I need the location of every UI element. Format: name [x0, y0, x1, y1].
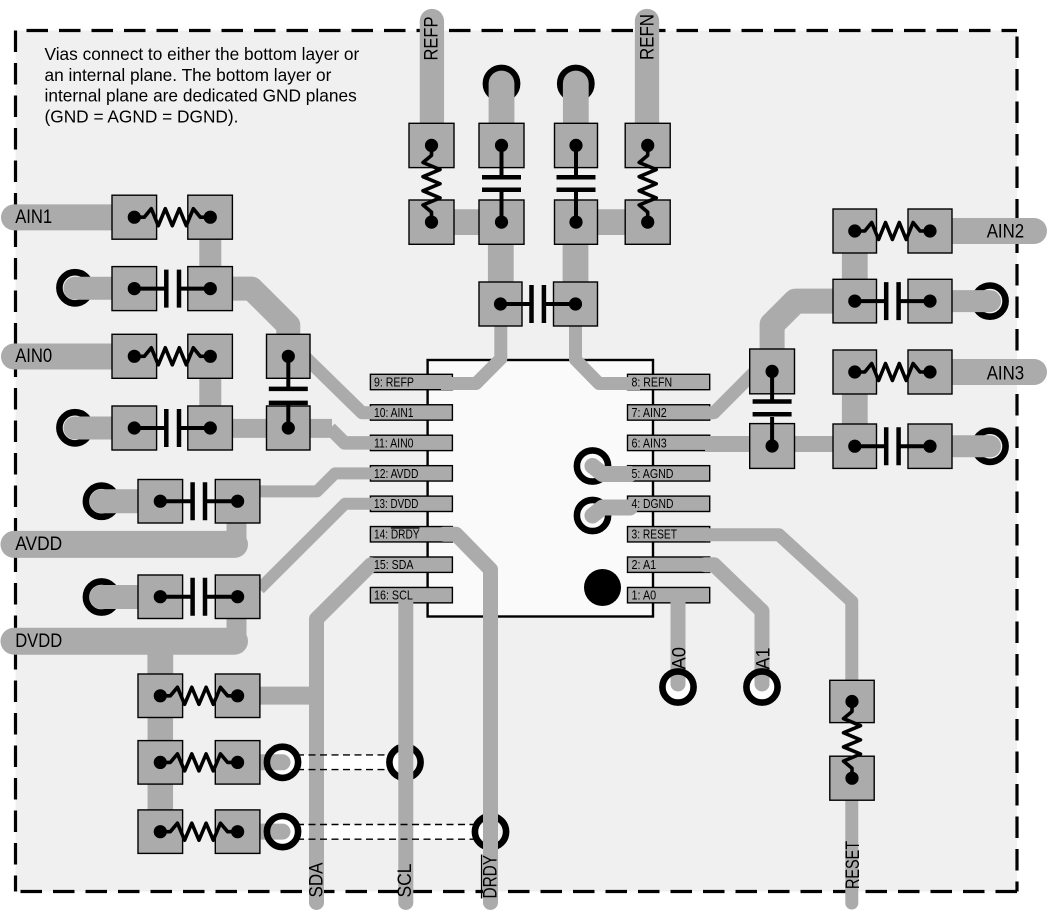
- capacitor C_AIN0: [112, 406, 232, 450]
- wire C2 to diff cap to pin11: [210, 419, 332, 438]
- pin 10 AIN1: [370, 405, 452, 420]
- wire via to REF colC: [563, 84, 589, 147]
- via AGND: [577, 450, 608, 481]
- pin 3 RESET: [628, 527, 710, 542]
- via A0: [662, 671, 693, 702]
- svg-text:RESET: RESET: [843, 841, 864, 889]
- wire pullup3 to via: [258, 824, 283, 840]
- via DVDD cap GND: [86, 581, 117, 612]
- resistor R_AIN0: [112, 334, 232, 378]
- pin 7 AIN2: [628, 405, 710, 420]
- pin 8 REFN: [628, 374, 710, 389]
- wire AIN3 input: [930, 359, 1034, 385]
- resistor R_AIN3: [833, 350, 952, 394]
- jumper channel DRDY (white): [283, 825, 491, 840]
- capacitor C_AVDD: [138, 480, 260, 524]
- wire diff cap to pin10: [302, 354, 372, 413]
- svg-text:AIN0: AIN0: [15, 346, 52, 367]
- board outline dashed right: [1015, 31, 1018, 892]
- wire via to C1: [75, 277, 134, 300]
- svg-text:14: DRDY: 14: DRDY: [374, 528, 420, 542]
- wire AVDD rise to cap: [227, 505, 247, 544]
- wire pin1 to A0 via: [671, 600, 686, 684]
- svg-text:15: SDA: 15: SDA: [374, 558, 414, 572]
- svg-text:5: AGND: 5: AGND: [632, 467, 674, 481]
- svg-text:10: AIN1: 10: AIN1: [374, 406, 414, 420]
- wire AIN0 input: [14, 344, 135, 370]
- wire DVDD rise to cap: [227, 600, 247, 641]
- board outline dashed left: [14, 31, 17, 892]
- wire colC to REF cap: [563, 223, 589, 305]
- pin 1 A0: [628, 587, 710, 602]
- svg-text:8: REFN: 8: REFN: [632, 375, 673, 389]
- pin 14 DRDY overline: [391, 527, 420, 529]
- svg-text:AIN2: AIN2: [987, 222, 1024, 243]
- svg-text:SCL: SCL: [395, 864, 416, 898]
- wire pullup1 to SDA: [258, 687, 324, 705]
- resistor R_pullup2: [138, 741, 260, 785]
- svg-text:A1: A1: [754, 648, 775, 670]
- via AIN2 cap GND: [974, 286, 1005, 317]
- svg-text:SDA: SDA: [307, 862, 328, 897]
- resistor R_AIN2: [833, 209, 952, 253]
- svg-text:12: AVDD: 12: AVDD: [374, 467, 418, 481]
- wire AGND via to pin5: [593, 466, 631, 474]
- svg-text:13: DVDD: 13: DVDD: [374, 497, 418, 511]
- svg-text:2: A1: 2: A1: [632, 558, 657, 572]
- wire AIN2 R to cap: [842, 253, 868, 302]
- wire AIN2 cap to via: [930, 290, 990, 312]
- via AIN0 cap GND: [59, 412, 90, 443]
- via REF cap GND right: [560, 68, 591, 99]
- via jumper SCL right: [389, 747, 420, 778]
- board outline dashed bottom: [16, 890, 1018, 893]
- svg-text:A0: A0: [670, 647, 691, 670]
- wire DVDD to pullups: [147, 640, 173, 675]
- capacitor C_REFP: [479, 123, 524, 244]
- wire colA-colB link: [430, 209, 503, 235]
- pin 15 SDA: [370, 557, 452, 572]
- pin 9 REFP: [370, 374, 452, 389]
- capacitor C_REFN: [555, 123, 598, 244]
- svg-text:AIN3: AIN3: [987, 363, 1024, 384]
- svg-text:internal plane are dedicated G: internal plane are dedicated GND planes: [45, 86, 358, 106]
- wire pin15 to SDA: [317, 565, 372, 903]
- via jumper DRDY left: [267, 816, 298, 847]
- capacitor C_AIN2: [833, 279, 952, 323]
- capacitor C_AIN3: [833, 424, 952, 468]
- note text block: [45, 44, 360, 126]
- via REF cap GND left: [486, 68, 517, 99]
- wire RESET R to edge: [845, 798, 858, 903]
- capacitor C_REF (differential): [479, 282, 598, 326]
- wire AIN2 cap to diff cap: [772, 301, 853, 372]
- svg-text:AIN1: AIN1: [15, 207, 52, 228]
- pin 12 AVDD: [370, 466, 452, 481]
- svg-text:7: AIN2: 7: AIN2: [632, 406, 667, 420]
- resistor R_pullup1: [138, 674, 260, 718]
- resistor R_AIN1: [112, 195, 232, 239]
- svg-text:(GND = AGND = DGND).: (GND = AGND = DGND).: [45, 106, 239, 126]
- svg-text:1: A0: 1: A0: [632, 589, 657, 603]
- wire REF cap to pin8: [576, 302, 641, 384]
- wire pin3 to RESET R: [706, 535, 852, 684]
- wire pin7 to diff cap: [706, 368, 759, 413]
- wire AVDD input: [14, 531, 235, 558]
- wire DGND via to pin4: [593, 508, 631, 516]
- wire colB to REF cap: [488, 223, 514, 305]
- capacitor C_AIN1: [112, 267, 232, 311]
- wire pullup2 to via: [258, 754, 283, 770]
- pin 16 SCL: [370, 587, 452, 602]
- via AVDD cap GND: [86, 486, 117, 517]
- capacitor C_diff_right: [750, 349, 795, 468]
- wire pullup chain 2-3: [148, 783, 174, 811]
- svg-text:DRDY: DRDY: [481, 855, 502, 899]
- wire via to DVDD cap: [102, 585, 162, 609]
- resistor R_RESET: [830, 680, 874, 800]
- svg-text:16: SCL: 16: SCL: [374, 589, 413, 603]
- svg-text:REFP: REFP: [422, 17, 443, 61]
- pin 11 AIN0: [370, 435, 452, 450]
- wire AIN3 cap to via: [930, 435, 990, 457]
- capacitor C_diff_left: [267, 334, 311, 450]
- via jumper DRDY right: [475, 816, 506, 847]
- wire via to C2: [75, 417, 134, 440]
- wire pin6 to AIN3 cap: [705, 436, 855, 452]
- wire pin2 to A1 via: [705, 565, 762, 684]
- jumper dashes DRDY: [297, 825, 476, 840]
- capacitor C_DVDD: [138, 575, 260, 619]
- resistor R_REFP: [409, 123, 454, 244]
- wire R1-C1 link: [199, 218, 221, 288]
- svg-text:an internal plane. The bottom: an internal plane. The bottom layer or: [45, 65, 332, 85]
- wire AIN2 input: [930, 218, 1034, 244]
- wire pullup chain 1-2: [148, 717, 174, 743]
- svg-text:AVDD: AVDD: [15, 534, 62, 555]
- wire pin14 to DRDY: [444, 534, 491, 902]
- wire AIN1 input: [14, 204, 135, 230]
- via jumper SDA left: [267, 747, 298, 778]
- via AIN1 cap GND: [59, 272, 90, 303]
- wire colC-colD link: [574, 209, 649, 235]
- resistor R_pullup3: [138, 810, 260, 854]
- jumper dashes SDA-SCL: [297, 755, 391, 770]
- pin 6 AIN3: [628, 435, 710, 450]
- wire R2-C2 link: [199, 357, 221, 427]
- pin 5 AGND: [628, 466, 710, 481]
- pin 1 indicator dot: [584, 569, 621, 606]
- wire via to AVDD cap: [102, 489, 162, 513]
- label DRDY overline: [481, 855, 483, 899]
- wire pin16 to SCL: [398, 598, 413, 903]
- svg-text:REFN: REFN: [638, 14, 659, 60]
- svg-text:Vias connect to either the bot: Vias connect to either the bottom layer …: [45, 44, 360, 64]
- via pad white discs: [271, 750, 295, 774]
- wire DVDD cap to pin13: [260, 504, 373, 589]
- svg-text:11: AIN0: 11: AIN0: [374, 436, 414, 450]
- resistor R_REFN: [625, 123, 670, 244]
- wire REFN top: [635, 21, 659, 146]
- IC U1 body: [428, 360, 653, 617]
- svg-text:9: REFP: 9: REFP: [374, 375, 414, 389]
- pin 2 A1: [628, 557, 710, 572]
- via A1: [746, 671, 777, 702]
- pin 4 DGND: [628, 496, 710, 511]
- wire REFP top: [420, 21, 444, 146]
- wire DVDD input: [14, 628, 235, 655]
- wire REF cap to pin9: [441, 302, 501, 384]
- svg-text:6: AIN3: 6: AIN3: [632, 436, 667, 450]
- pin 14 DRDY: [370, 527, 452, 542]
- wire C1 to diff cap: [210, 289, 288, 352]
- wire AVDD cap to pin12: [257, 473, 372, 491]
- pin 13 DVDD: [370, 496, 452, 511]
- svg-text:3: RESET: 3: RESET: [632, 528, 678, 542]
- svg-text:4: DGND: 4: DGND: [632, 497, 674, 511]
- board outline dashed top: [16, 29, 1018, 32]
- via AIN3 cap GND: [974, 431, 1005, 462]
- svg-text:DVDD: DVDD: [15, 631, 62, 652]
- jumper channel SDA-SCL (white): [283, 755, 406, 770]
- wire jog to pin11: [330, 428, 372, 443]
- via DGND: [577, 500, 608, 531]
- wire via to REF colB: [489, 84, 515, 147]
- wire AIN3 R to cap: [842, 394, 868, 446]
